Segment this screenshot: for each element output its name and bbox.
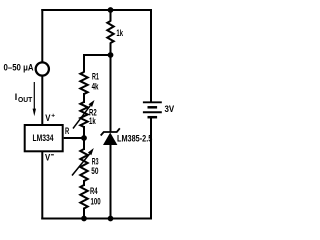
svg-text:V: V bbox=[45, 153, 50, 163]
svg-text:R4: R4 bbox=[90, 186, 98, 196]
wire 1k top lead bbox=[110, 10, 112, 22]
svg-text:50: 50 bbox=[91, 166, 98, 176]
svg-text:R1: R1 bbox=[92, 72, 99, 82]
current arrow IOUT bbox=[15, 82, 36, 116]
resistor 1k bbox=[107, 21, 123, 43]
wire node to zener cathode bbox=[110, 55, 112, 132]
wire right vertical upper bbox=[150, 9, 152, 102]
node 1k top junction bbox=[108, 7, 114, 13]
svg-text:LM334: LM334 bbox=[33, 133, 54, 143]
wire bottom horizontal bbox=[41, 218, 152, 220]
svg-text:0–50 μA: 0–50 μA bbox=[4, 62, 35, 72]
svg-text:3V: 3V bbox=[165, 104, 175, 114]
resistor R4 100 bbox=[80, 185, 100, 209]
wire right vertical lower bbox=[150, 117, 152, 219]
wire meter to LM334 V+ bbox=[41, 75, 43, 126]
wire 1k bottom lead bbox=[110, 43, 112, 56]
resistor R2 1k potentiometer bbox=[73, 100, 97, 129]
wire R1 to R2 bbox=[83, 93, 85, 103]
svg-text:R3: R3 bbox=[92, 156, 99, 166]
svg-text:OUT: OUT bbox=[18, 97, 33, 104]
wire left vertical upper bbox=[41, 9, 43, 63]
wire LM334 V- down bbox=[41, 151, 43, 220]
svg-text:100: 100 bbox=[91, 197, 101, 207]
zener reference D1 LM385-2.5 bbox=[101, 128, 153, 145]
wire R4 to bottom bbox=[83, 208, 85, 219]
svg-text:1k: 1k bbox=[89, 116, 96, 126]
svg-text:1k: 1k bbox=[116, 28, 123, 38]
wire R pin to divider bbox=[64, 137, 84, 139]
IC U1 LM334 bbox=[25, 125, 63, 151]
wire divider top horizontal bbox=[83, 54, 111, 56]
svg-text:4k: 4k bbox=[92, 82, 99, 92]
wire R2 to node bbox=[83, 126, 85, 150]
meter M1 0-50uA bbox=[4, 62, 49, 75]
node divider top junction bbox=[108, 52, 114, 58]
svg-text:R: R bbox=[65, 126, 70, 136]
pin label V+ bbox=[45, 112, 55, 123]
pin label V- bbox=[45, 153, 54, 163]
resistor R1 4k bbox=[80, 72, 99, 95]
svg-text:+: + bbox=[51, 112, 55, 119]
wire R3 to R4 bbox=[83, 180, 85, 186]
resistor R3 50 potentiometer bbox=[72, 148, 99, 181]
wire top horizontal bbox=[41, 9, 152, 11]
svg-text:LM385-2.5: LM385-2.5 bbox=[117, 133, 152, 143]
battery BT1 3V bbox=[143, 102, 174, 117]
svg-text:I: I bbox=[15, 92, 17, 102]
node divider bottom junction bbox=[81, 216, 87, 222]
node R pin junction bbox=[81, 135, 87, 141]
wire zener anode down bbox=[110, 144, 112, 219]
wire divider top lead bbox=[83, 54, 85, 73]
svg-text:V: V bbox=[45, 113, 50, 123]
node zener bottom junction bbox=[108, 216, 114, 222]
